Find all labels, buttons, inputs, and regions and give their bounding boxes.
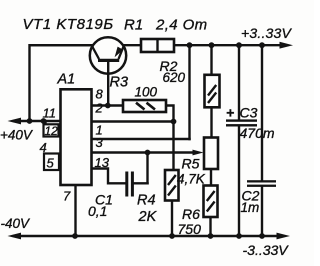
svg-text:750: 750 [178, 221, 202, 237]
wire C2 riser top [261, 45, 263, 180]
svg-text:8: 8 [96, 87, 104, 102]
svg-text:4: 4 [40, 140, 47, 155]
resistor R6 power slashes [207, 191, 215, 212]
svg-text:3: 3 [96, 135, 104, 150]
wire transistor emitter to R1 [124, 44, 142, 46]
transistor VT1 collector diagonal [30, 45, 99, 59]
wire IC pin 1 to riser [92, 138, 190, 140]
svg-text:4,7K: 4,7K [177, 172, 206, 187]
wire IC pin 7 lead [74, 185, 76, 236]
wire pin-1 riser [188, 45, 190, 139]
wire IC pin 13 jog to C1 [92, 169, 125, 184]
node bottom rail pin-7 [72, 233, 78, 239]
svg-text:2,4 Om: 2,4 Om [155, 17, 208, 34]
wire C1 riser to pin-3 net [146, 153, 148, 184]
wire R4 bottom lead [171, 201, 173, 237]
capacitor C3 top plate [226, 119, 257, 121]
svg-text:11: 11 [43, 106, 57, 121]
svg-text:12: 12 [45, 124, 59, 138]
wire C2 riser bottom [261, 187, 263, 236]
transistor VT1 base bar [98, 59, 119, 62]
arrow +40V (left) [8, 118, 22, 125]
IC A1 pin-5 box [44, 154, 59, 171]
resistor R2 power slashes [208, 85, 216, 103]
svg-text:+3..33V: +3..33V [241, 25, 293, 41]
resistor R3 body [123, 100, 166, 112]
transistor base lead [107, 61, 109, 106]
svg-text:620: 620 [163, 70, 186, 85]
wire top-left corner (base net riser) [30, 45, 93, 121]
wire top rail R1 to +3..33V arrow [174, 44, 284, 46]
svg-text:R3: R3 [110, 75, 129, 91]
node +40V base riser [27, 118, 33, 124]
arrow -40V (left) [8, 233, 22, 240]
wire C3 riser bottom [238, 126, 240, 236]
node top rail C3 [236, 42, 242, 48]
resistor R6 body [204, 186, 218, 218]
wire IC pin 3 to R5 wiper [92, 151, 194, 153]
svg-text:-40V: -40V [1, 216, 32, 231]
wire pin-12 riser [44, 121, 46, 124]
svg-text:R1: R1 [124, 17, 143, 34]
svg-text:R4: R4 [137, 193, 156, 209]
transistor VT1 circle [90, 37, 126, 73]
node +40V pin-12 [41, 118, 47, 124]
wire R6 bottom lead [209, 217, 211, 236]
wire R2 bottom to R5 top [210, 107, 212, 138]
node pin-8 emitter junction [105, 103, 111, 109]
capacitor C3 bottom plate [226, 124, 257, 126]
svg-text:-3..33V: -3..33V [243, 242, 290, 258]
svg-text:+: + [226, 105, 234, 121]
op-amp U1 / IC A1 body [61, 89, 92, 185]
resistor R1 1W bar [156, 39, 158, 52]
wire IC pin 8 to R3 [92, 104, 123, 106]
wire C3 riser top [238, 45, 240, 119]
arrow +3..33V (right) [280, 42, 294, 49]
resistor R5 wiper arrow [193, 150, 204, 156]
svg-text:0,1: 0,1 [88, 203, 107, 219]
node top rail C2 [259, 42, 265, 48]
resistor R4 power slashes [168, 175, 176, 196]
resistor R3 power slashes [136, 103, 155, 110]
capacitor C2 top plate [247, 180, 276, 182]
svg-text:7: 7 [63, 189, 71, 204]
transistor VT1 emitter arrow [115, 47, 124, 58]
resistor R2 body [205, 75, 220, 108]
svg-text:VT1 KT819Б: VT1 KT819Б [23, 16, 114, 33]
node top rail R2 [209, 42, 215, 48]
wire +40V to IC pin 11 [14, 120, 61, 122]
node pin-3 C1 junction [145, 150, 151, 156]
svg-text:470m: 470m [240, 125, 275, 141]
svg-text:2K: 2K [138, 209, 158, 225]
node bottom rail R6 [208, 233, 214, 239]
capacitor C1 left plate [125, 172, 128, 197]
node bottom rail R4 [169, 233, 175, 239]
svg-text:C3: C3 [240, 104, 258, 120]
svg-text:13: 13 [95, 155, 110, 170]
resistor R1 body [141, 39, 174, 52]
wire IC pin 2 to junction [92, 120, 174, 122]
IC A1 pin-12 box [44, 124, 59, 136]
capacitor C2 bottom plate [247, 185, 276, 187]
wire R3 right, down to R4 [166, 106, 174, 171]
svg-text:R5: R5 [182, 156, 200, 172]
transistor VT1 emitter diagonal [119, 46, 124, 59]
svg-text:R6: R6 [182, 206, 200, 222]
resistor R5 body (trimmer) [204, 138, 218, 170]
node pin-2 R3 junction [171, 119, 177, 125]
svg-text:100: 100 [135, 85, 158, 100]
node top rail pin-1 riser [187, 42, 193, 48]
svg-text:1m: 1m [241, 200, 260, 215]
wire bottom rail [14, 235, 281, 237]
svg-text:2: 2 [95, 101, 104, 116]
wire R2 top lead [210, 45, 212, 75]
wire R5 to R6 link [210, 169, 212, 186]
svg-text:A1: A1 [57, 72, 76, 88]
node bottom rail C3 [236, 233, 242, 239]
svg-text:+40V: +40V [0, 128, 34, 143]
wire C1 right lead [134, 182, 148, 184]
capacitor C1 right plate [131, 172, 134, 197]
resistor R4 body [165, 170, 179, 201]
arrow -3..33V (right) [277, 233, 291, 240]
node bottom rail C2 [259, 233, 265, 239]
svg-text:5: 5 [47, 156, 55, 171]
